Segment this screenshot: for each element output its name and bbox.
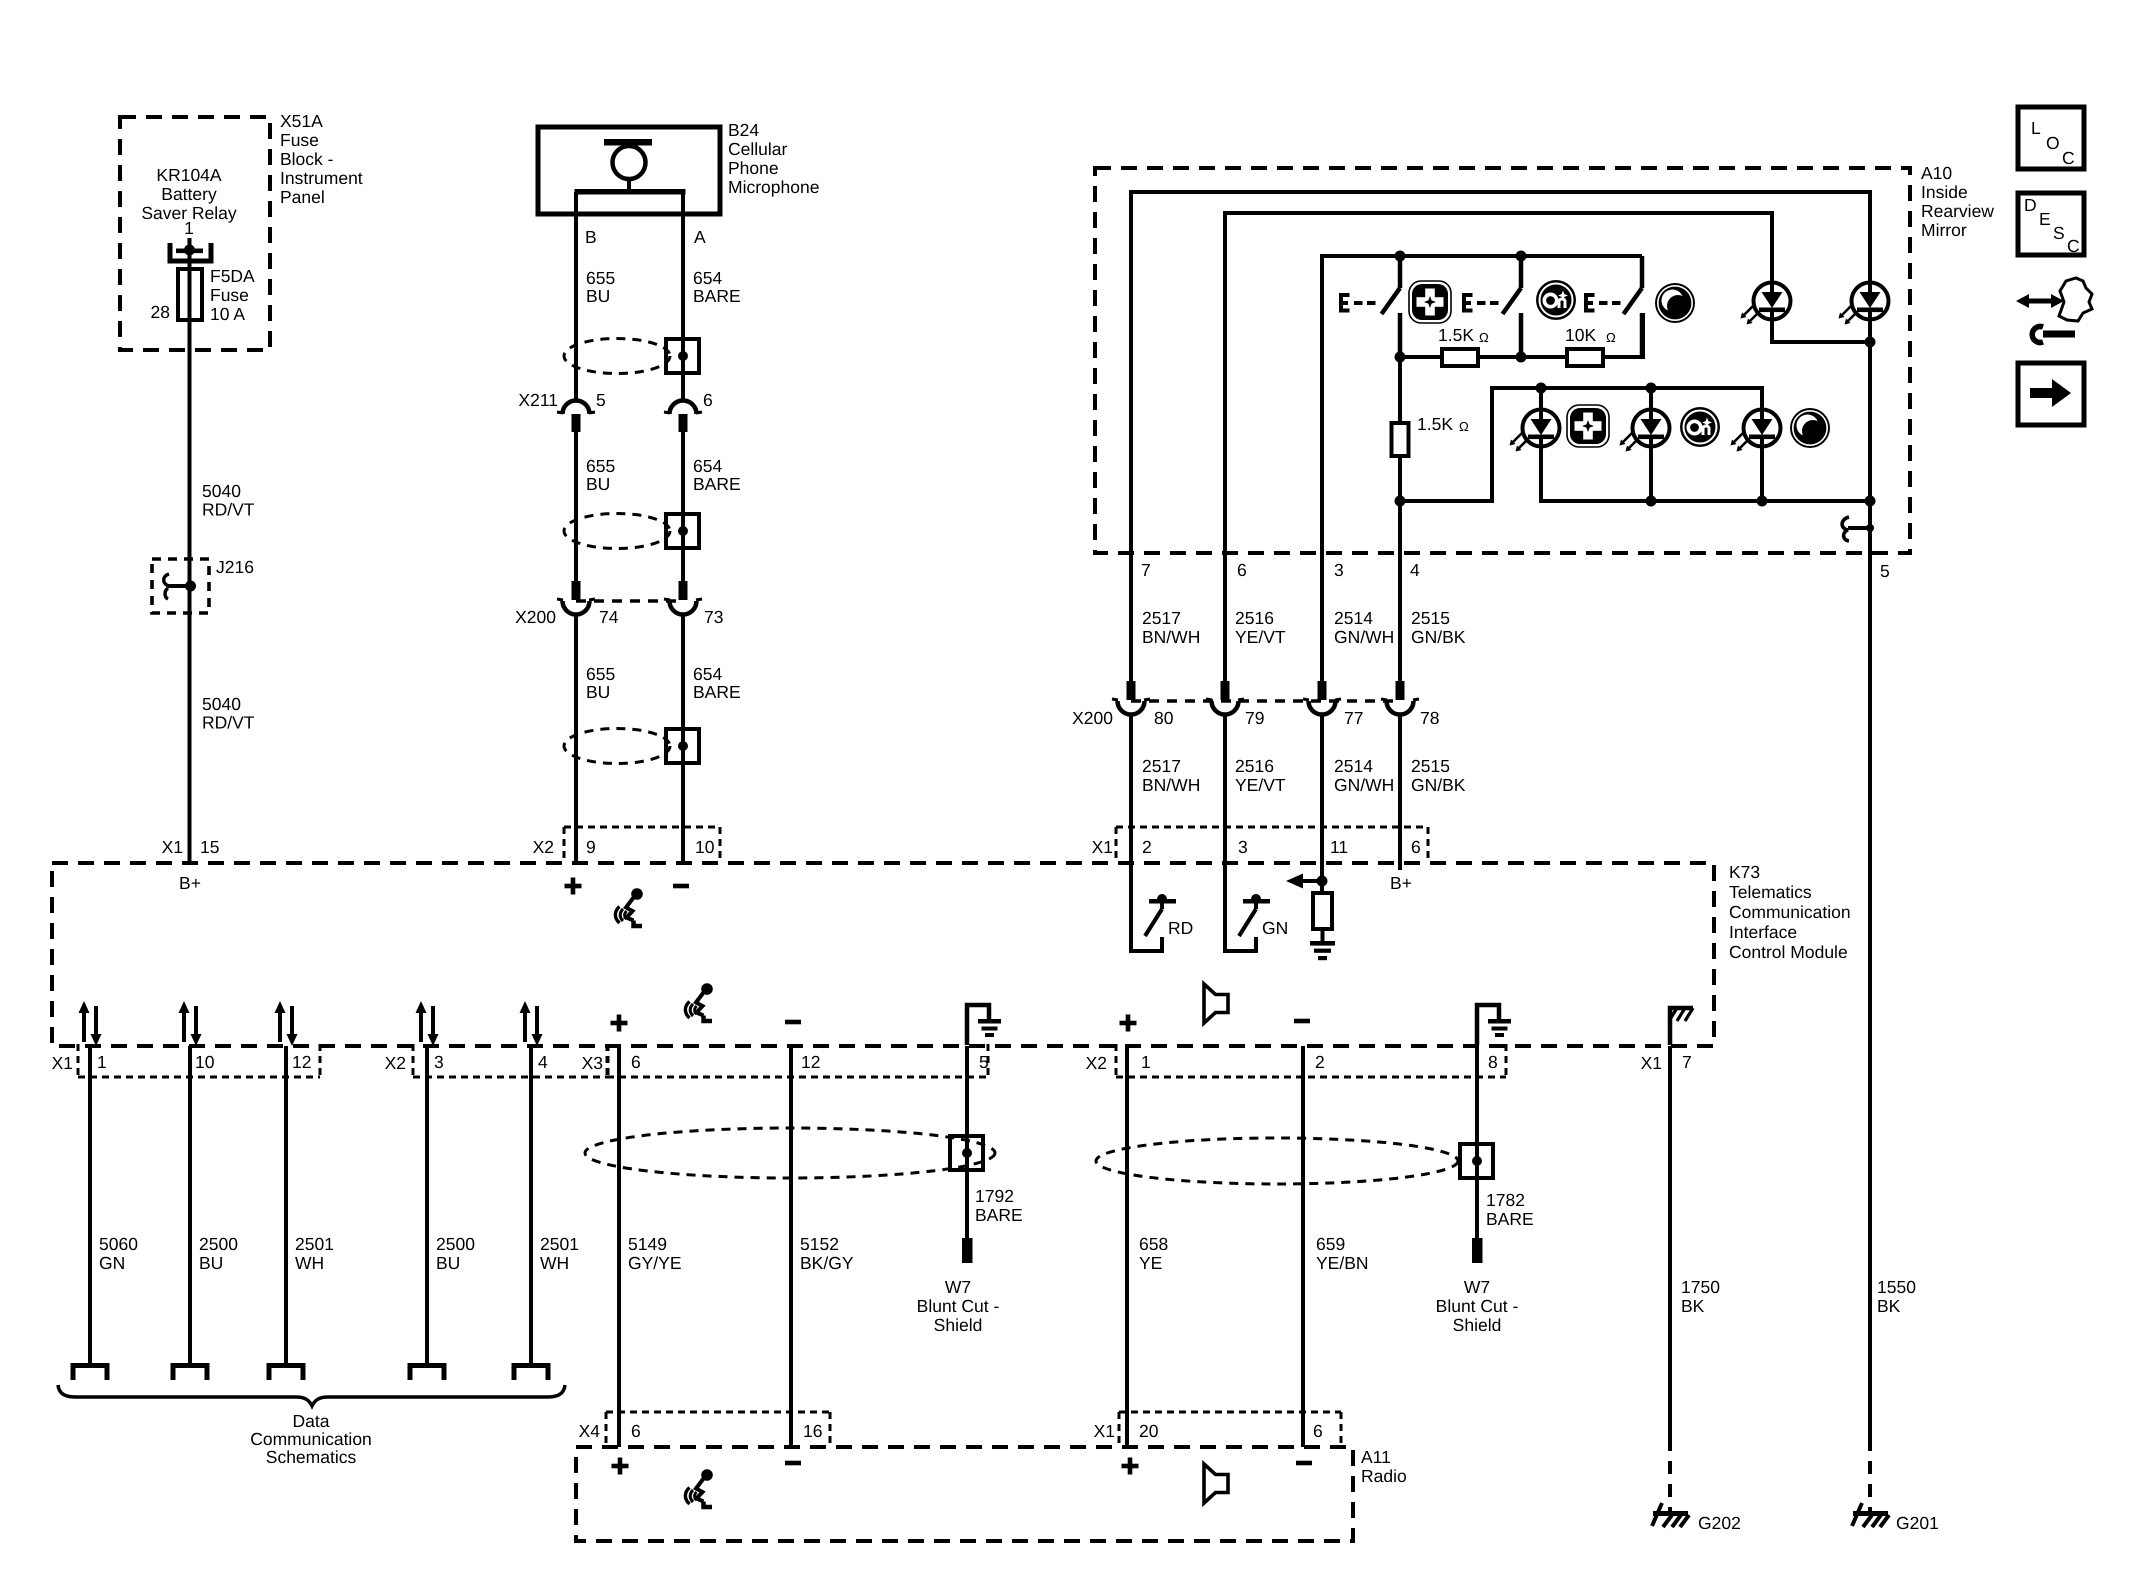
pin 74 number [599, 607, 619, 627]
wire 658 YE [1125, 1046, 1129, 1447]
A11 radio dashed box [576, 1447, 1353, 1541]
svg-text:2: 2 [1142, 837, 1152, 857]
wire label 655 BU (row3) [586, 664, 615, 702]
off-page terminal #1 [73, 1366, 107, 1381]
connector X200 terminal pin 74 [557, 581, 595, 615]
pin 78 number [1420, 708, 1439, 728]
svg-text:RD: RD [1168, 918, 1193, 938]
twisted pair ellipse 2 [564, 514, 670, 549]
serial data arrows pin X2-4 [520, 1001, 543, 1046]
svg-text:5149: 5149 [628, 1234, 667, 1254]
pin 73 number [704, 607, 723, 627]
label X200 (mirror) [1072, 708, 1113, 728]
svg-text:655: 655 [586, 268, 615, 288]
LED D5 [1731, 410, 1781, 452]
icon medical cross (LED row) [1567, 405, 1609, 447]
plus sign above X2-1 [1120, 1015, 1137, 1032]
wire 654 BARE segment 3 [681, 614, 685, 863]
wire label 659 YE/BN [1316, 1234, 1369, 1273]
svg-text:1: 1 [97, 1052, 107, 1072]
svg-text:2514: 2514 [1334, 608, 1373, 628]
label J216 [216, 557, 254, 577]
svg-text:10K: 10K [1565, 325, 1596, 345]
wire label 5060 GN [99, 1234, 138, 1273]
wire label 1550 BK [1877, 1277, 1916, 1316]
svg-text:Data: Data [293, 1411, 330, 1431]
K73 X2 pin box (3,4) [413, 1044, 608, 1077]
shield drain box 1 [666, 339, 699, 373]
pin 5 number (X3) [979, 1052, 989, 1072]
svg-text:73: 73 [704, 607, 723, 627]
pin 11 number [1330, 837, 1348, 857]
wire 659 YE/BN [1301, 1046, 1305, 1447]
wire label 654 BARE (row3) [693, 664, 741, 702]
speaker icon above X2 [1204, 984, 1228, 1023]
wire mirror pin7 feed (to LED2) [1131, 192, 1870, 681]
LED anode rail [1400, 388, 1762, 501]
svg-text:Fuse: Fuse [210, 285, 249, 305]
svg-text:GY/YE: GY/YE [628, 1253, 682, 1273]
svg-text:28: 28 [151, 302, 170, 322]
svg-text:X1: X1 [1641, 1053, 1662, 1073]
svg-text:1550: 1550 [1877, 1277, 1916, 1297]
svg-text:A11: A11 [1361, 1447, 1391, 1467]
junction dot cathode rail 1 [1646, 496, 1657, 507]
plus sign under pin 9 [565, 878, 582, 895]
svg-text:K73: K73 [1729, 862, 1760, 882]
wire 1750 BK [1668, 1046, 1672, 1511]
connector X200 terminal pin 80 [1112, 681, 1150, 715]
fuse F5DA [178, 269, 202, 320]
label A11 Radio [1361, 1447, 1407, 1486]
svg-text:X200: X200 [1072, 708, 1113, 728]
wire 1782 BARE shield [1475, 1046, 1479, 1238]
serial data arrows pin X2-3 [416, 1001, 439, 1046]
wire 655 BU segment 1 [574, 192, 578, 400]
svg-text:Fuse: Fuse [280, 130, 319, 150]
chassis ground hook above X1-7 [1669, 1008, 1693, 1045]
label W7 Blunt Cut - Shield (left) [917, 1277, 1000, 1335]
svg-text:X1: X1 [1094, 1421, 1115, 1441]
serial data wire 5060 GN #1 [88, 1046, 92, 1365]
svg-text:1782: 1782 [1486, 1190, 1525, 1210]
shield drain box (1782) [1460, 1144, 1493, 1178]
pin 1 number (X2) [1141, 1052, 1151, 1072]
label X4 (radio) [579, 1421, 601, 1441]
wire label 2515 GN/BK (lower) [1411, 756, 1466, 795]
svg-text:B24: B24 [728, 120, 759, 140]
junction dot pin4 bottom rail [1395, 496, 1406, 507]
wire mirror pin4 column [1398, 357, 1402, 681]
svg-text:10 A: 10 A [210, 304, 245, 324]
wire label 655 BU (row1) [586, 268, 615, 306]
junction dot cathode rail 2 [1757, 496, 1768, 507]
ground G202 symbol [1652, 1503, 1689, 1527]
svg-text:12: 12 [292, 1052, 311, 1072]
mirror mount clip symbol [1842, 517, 1874, 541]
svg-text:2515: 2515 [1411, 756, 1450, 776]
svg-text:L: L [2031, 118, 2041, 138]
resistor R1 1.5K [1442, 349, 1478, 366]
serial data wire 2500 BU #2 [188, 1046, 192, 1365]
svg-text:1: 1 [1141, 1052, 1151, 1072]
speaker icon in radio [1204, 1464, 1228, 1503]
svg-text:8: 8 [1488, 1052, 1498, 1072]
serial data arrows pin X1-12 [275, 1001, 298, 1046]
serial data wire 2501 WH #3 [284, 1046, 288, 1365]
svg-text:Ω: Ω [1479, 330, 1489, 345]
A11 radio X1 pin box [1119, 1412, 1341, 1447]
svg-text:X2: X2 [533, 837, 554, 857]
connector X200 terminal pin 78 [1381, 681, 1419, 715]
off-page terminal #2 [173, 1366, 207, 1381]
svg-text:GN/BK: GN/BK [1411, 627, 1466, 647]
svg-text:Shield: Shield [1453, 1315, 1502, 1335]
junction dot anode rail 1 [1536, 383, 1547, 394]
svg-text:W7: W7 [1464, 1277, 1490, 1297]
wire label 2517 BN/WH (lower) [1142, 756, 1200, 795]
A11 radio X4 pin box [606, 1412, 830, 1447]
label X2 (K73 top) [533, 837, 554, 857]
B24 component box [538, 127, 720, 214]
K73 X2 pin box (9,10) [564, 827, 720, 862]
pin 10 number [195, 1052, 215, 1072]
label X3 (K73 bottom) [582, 1053, 603, 1073]
svg-text:6: 6 [631, 1052, 641, 1072]
junction dot cathode rail 3 [1865, 496, 1876, 507]
wire 1792 BARE shield [965, 1046, 969, 1238]
svg-text:Microphone: Microphone [728, 177, 819, 197]
wire 2517 lower [1129, 714, 1133, 863]
pin 11 internal: arrow and resistor to ground [1286, 863, 1335, 960]
svg-text:3: 3 [434, 1052, 444, 1072]
svg-text:W7: W7 [945, 1277, 971, 1297]
icon OnStar (switch row) [1536, 280, 1576, 320]
svg-text:BARE: BARE [693, 286, 741, 306]
svg-text:Phone: Phone [728, 158, 779, 178]
switch S1 (emergency) [1339, 256, 1400, 357]
wire label 2515 GN/BK (upper) [1411, 608, 1466, 647]
svg-text:WH: WH [540, 1253, 569, 1273]
svg-text:Instrument: Instrument [280, 168, 363, 188]
junction dot anode rail 2 [1646, 383, 1657, 394]
label X1 (radio) [1094, 1421, 1115, 1441]
wire 2515 lower [1398, 714, 1402, 863]
twisted pair ellipse (speaker out) [1096, 1138, 1458, 1184]
LED cathode rail [1541, 446, 1870, 501]
svg-text:4: 4 [1410, 560, 1420, 580]
connector X200 terminal pin 79 [1206, 681, 1244, 715]
wire label 2500 BU [436, 1234, 475, 1273]
svg-text:Shield: Shield [934, 1315, 983, 1335]
plus sign above X3-6 [611, 1015, 628, 1032]
minus sign radio X4-16 [785, 1461, 801, 1466]
connector X200 terminal pin 73 [664, 581, 702, 615]
svg-text:X4: X4 [579, 1421, 601, 1441]
svg-text:A10: A10 [1921, 163, 1952, 183]
svg-text:6: 6 [1237, 560, 1247, 580]
icon medical cross (switch row) [1409, 281, 1451, 323]
label G202 [1698, 1513, 1741, 1533]
K73 X1 pin box (1,10,12) [78, 1044, 320, 1077]
svg-text:658: 658 [1139, 1234, 1168, 1254]
svg-text:77: 77 [1344, 708, 1363, 728]
svg-text:Blunt Cut -: Blunt Cut - [1436, 1296, 1519, 1316]
wire 654 BARE segment 2 [681, 432, 685, 581]
wire label 1782 BARE [1486, 1190, 1534, 1229]
svg-text:B+: B+ [1390, 873, 1412, 893]
K73 X3 pin box (6,12,5) [607, 1044, 988, 1077]
pin 6 number [1411, 837, 1421, 857]
connector X200 terminal pin 77 [1303, 681, 1341, 715]
label B+ under X1-15 [179, 873, 201, 893]
svg-text:5060: 5060 [99, 1234, 138, 1254]
svg-text:2501: 2501 [295, 1234, 334, 1254]
earth ground hook above X2-8 [1477, 1005, 1511, 1045]
svg-text:GN: GN [1262, 918, 1288, 938]
svg-text:G201: G201 [1896, 1513, 1939, 1533]
svg-text:5: 5 [596, 390, 606, 410]
svg-text:YE/VT: YE/VT [1235, 627, 1286, 647]
antenna symbol RD (cellular) [1131, 863, 1176, 951]
junction dot switch rail 1 [1395, 251, 1406, 262]
pin 4 number (bottom) [538, 1052, 548, 1072]
svg-text:BARE: BARE [693, 682, 741, 702]
svg-text:X1: X1 [162, 837, 183, 857]
K73 telematics module dashed box [52, 863, 1714, 1046]
wire 1550 BK dashed segment [1868, 1438, 1872, 1511]
svg-text:X3: X3 [582, 1053, 603, 1073]
next page arrow box [2018, 363, 2084, 425]
label X1 (K73 bottom far right) [1641, 1053, 1662, 1073]
svg-text:BARE: BARE [975, 1205, 1023, 1225]
svg-text:9: 9 [586, 837, 596, 857]
svg-text:659: 659 [1316, 1234, 1345, 1254]
wire mirror pin5 down [1868, 501, 1872, 1438]
label 1.5K ohm (R1) [1438, 325, 1489, 345]
svg-text:Block -: Block - [280, 149, 334, 169]
ground G201 symbol [1852, 1503, 1889, 1527]
svg-text:KR104A: KR104A [156, 165, 222, 185]
wire 5040 RD/VT lower segment [188, 586, 192, 863]
svg-text:12: 12 [801, 1052, 820, 1072]
svg-text:J216: J216 [216, 557, 254, 577]
svg-text:B: B [585, 227, 597, 247]
svg-text:5040: 5040 [202, 694, 241, 714]
minus sign above X3-12 [785, 1020, 801, 1025]
svg-text:1792: 1792 [975, 1186, 1014, 1206]
svg-text:6: 6 [1313, 1421, 1323, 1441]
twisted pair ellipse 1 [564, 339, 670, 374]
svg-text:X1: X1 [1092, 837, 1113, 857]
svg-text:RD/VT: RD/VT [202, 500, 255, 520]
pin 2 number [1142, 837, 1152, 857]
pin 16 number (X4) [803, 1421, 822, 1441]
fuse block X51A dashed box [120, 117, 270, 350]
connector X200 link dashes (mirror) [1131, 699, 1400, 703]
serial data arrows pin X1-1 [79, 1001, 102, 1046]
svg-text:Schematics: Schematics [266, 1447, 357, 1467]
svg-text:2515: 2515 [1411, 608, 1450, 628]
wire label 2516 YE/VT (upper) [1235, 608, 1286, 647]
pin 1 label relay [184, 218, 194, 238]
wire label 2501 WH [295, 1234, 334, 1273]
shield drain box 3 [666, 729, 699, 763]
pin 3 number (bottom) [434, 1052, 444, 1072]
mirror pin 7 number [1141, 560, 1151, 580]
svg-text:GN: GN [99, 1253, 125, 1273]
svg-text:5: 5 [1880, 561, 1890, 581]
label X2 (K73 bottom) [385, 1053, 406, 1073]
label X51A Fuse Block - Instrument Panel [280, 111, 363, 207]
plus sign radio X4-6 [612, 1458, 629, 1475]
pin 6 number (X4) [631, 1421, 641, 1441]
pin 6 number [703, 390, 713, 410]
wire LED1 cathode to LED2 column [1772, 319, 1870, 342]
A10 mirror dashed box [1095, 168, 1910, 553]
wire label 2500 BU [199, 1234, 238, 1273]
svg-text:G202: G202 [1698, 1513, 1741, 1533]
svg-text:7: 7 [1141, 560, 1151, 580]
splice J216 clip symbol [164, 574, 196, 599]
wire label 2514 GN/WH (lower) [1334, 756, 1394, 795]
svg-text:B+: B+ [179, 873, 201, 893]
svg-text:80: 80 [1154, 708, 1174, 728]
svg-text:Cellular: Cellular [728, 139, 787, 159]
wire LED2 column [1868, 319, 1872, 501]
svg-text:Telematics: Telematics [1729, 882, 1812, 902]
wire 2516 lower [1223, 714, 1227, 863]
connector X211 terminal pin 6 [664, 401, 702, 433]
wire label 658 YE [1139, 1234, 1168, 1273]
svg-text:5152: 5152 [800, 1234, 839, 1254]
wire 5152 BK/GY [789, 1046, 793, 1447]
twisted pair ellipse 3 [564, 729, 670, 764]
pin 6 number (X3) [631, 1052, 641, 1072]
svg-text:BK: BK [1877, 1296, 1901, 1316]
earth ground hook above X3-5 [967, 1005, 1001, 1045]
svg-text:X2: X2 [385, 1053, 406, 1073]
svg-text:Communication: Communication [250, 1429, 372, 1449]
svg-text:Control Module: Control Module [1729, 942, 1848, 962]
svg-text:2501: 2501 [540, 1234, 579, 1254]
svg-text:20: 20 [1139, 1421, 1159, 1441]
label B+ (K73 right) [1390, 873, 1412, 893]
serial data arrows pin X1-10 [179, 1001, 202, 1046]
svg-text:4: 4 [538, 1052, 548, 1072]
off-page terminal #5 [514, 1366, 548, 1381]
K73 pin X1 label (top left) [162, 837, 183, 857]
label X1 (K73 bottom left) [52, 1053, 73, 1073]
mirror pin 5 number [1880, 561, 1890, 581]
svg-text:2517: 2517 [1142, 756, 1181, 776]
twisted pair ellipse (K73 mic out) [585, 1128, 995, 1178]
svg-text:X200: X200 [515, 607, 556, 627]
pin 3 number [1238, 837, 1248, 857]
K73 X1 pin box (2,3,11,6) [1116, 827, 1428, 862]
junction dot LED pair [1865, 337, 1876, 348]
svg-text:YE/VT: YE/VT [1235, 775, 1286, 795]
svg-text:78: 78 [1420, 708, 1439, 728]
LED D1 (top pair) [1741, 283, 1791, 325]
pin B label [585, 227, 597, 247]
wire label 5149 GY/YE [628, 1234, 682, 1273]
svg-text:2500: 2500 [199, 1234, 238, 1254]
label B24 Cellular Phone Microphone [728, 120, 819, 197]
svg-text:C: C [2062, 148, 2075, 168]
svg-text:Panel: Panel [280, 187, 325, 207]
svg-text:2516: 2516 [1235, 756, 1274, 776]
serial data wire 2501 WH #5 [529, 1046, 533, 1365]
LED anode stub 4 [1649, 388, 1653, 409]
icon phone (switch row) [1655, 283, 1695, 323]
label G201 [1896, 1513, 1939, 1533]
svg-text:BK/GY: BK/GY [800, 1253, 854, 1273]
wire label 654 BARE (row1) [693, 268, 741, 306]
icon phone (LED row) [1790, 408, 1830, 448]
svg-text:Communication: Communication [1729, 902, 1851, 922]
svg-text:D: D [2024, 195, 2037, 215]
pin 2 number (X2) [1315, 1052, 1325, 1072]
wire 5149 GY/YE [617, 1046, 621, 1447]
label X200 (mic) [515, 607, 556, 627]
icon OnStar (LED row) [1680, 407, 1720, 447]
junction dot resistor rail left [1395, 352, 1406, 363]
wire label 2516 YE/VT (lower) [1235, 756, 1286, 795]
svg-text:S: S [2053, 223, 2065, 243]
minus sign under pin 10 [673, 884, 689, 889]
antenna symbol GN (GPS) [1225, 863, 1270, 951]
pin 5 number [596, 390, 606, 410]
wire label 5040 RD/VT (lower) [202, 694, 255, 733]
svg-text:2517: 2517 [1142, 608, 1181, 628]
connector X200 link dashes (mic) [576, 599, 683, 603]
pin 28 label [151, 302, 170, 322]
svg-text:BN/WH: BN/WH [1142, 627, 1200, 647]
shield drain box (1792) [950, 1136, 983, 1170]
microphone icon inside K73 [615, 888, 642, 926]
wire label 1792 BARE [975, 1186, 1023, 1225]
svg-text:3: 3 [1238, 837, 1248, 857]
svg-text:BARE: BARE [693, 474, 741, 494]
svg-text:654: 654 [693, 456, 722, 476]
brace data communication [58, 1385, 565, 1406]
svg-text:BARE: BARE [1486, 1209, 1534, 1229]
svg-text:Interface: Interface [1729, 922, 1797, 942]
label X1 (K73 top right) [1092, 837, 1113, 857]
mirror adjust icon (double arrow, outline, wrench) [2016, 278, 2092, 343]
label KR104A Battery Saver Relay [141, 165, 237, 223]
pin 6 internal B+ stub [1398, 863, 1402, 870]
wire 2514 lower [1320, 714, 1324, 863]
pin 6 number (radio) [1313, 1421, 1323, 1441]
wire label 2501 WH [540, 1234, 579, 1273]
svg-text:Inside: Inside [1921, 182, 1968, 202]
label W7 Blunt Cut - Shield (right) [1436, 1277, 1519, 1335]
wire 654 BARE segment 1 [681, 192, 685, 400]
svg-text:Ω: Ω [1459, 419, 1469, 434]
relay contact KR104A [170, 238, 211, 261]
svg-text:74: 74 [599, 607, 619, 627]
pin 9 number [586, 837, 596, 857]
svg-text:X211: X211 [518, 390, 558, 410]
svg-text:Ω: Ω [1606, 330, 1616, 345]
svg-text:655: 655 [586, 664, 615, 684]
svg-text:1750: 1750 [1681, 1277, 1720, 1297]
label RD [1168, 918, 1193, 938]
svg-text:C: C [2067, 236, 2080, 256]
splice J216 dashed box [152, 559, 209, 613]
